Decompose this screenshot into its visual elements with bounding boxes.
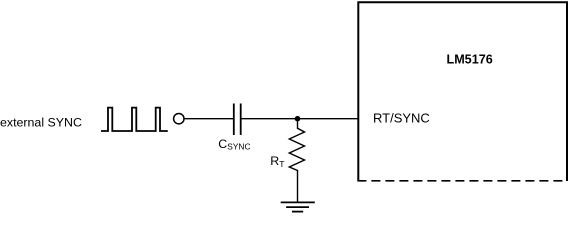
svg-text:RT: RT xyxy=(270,154,285,169)
svg-text:LM5176: LM5176 xyxy=(447,53,493,67)
svg-text:RT/SYNC: RT/SYNC xyxy=(373,111,430,126)
svg-text:CSYNC: CSYNC xyxy=(218,137,250,152)
svg-text:external SYNC: external SYNC xyxy=(0,115,82,129)
